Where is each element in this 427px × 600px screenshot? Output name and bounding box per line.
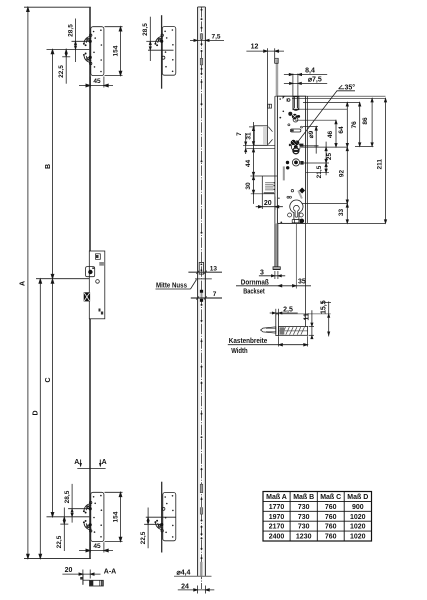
svg-text:A: A xyxy=(74,459,79,466)
dimension 154 (top) xyxy=(105,26,123,28)
dimension 13 line xyxy=(188,271,222,273)
svg-text:1770: 1770 xyxy=(269,504,285,511)
cylinder square hole in strip xyxy=(199,263,203,275)
svg-text:⌀7,5: ⌀7,5 xyxy=(308,77,322,84)
svg-text:76: 76 xyxy=(351,121,358,129)
svg-text:30: 30 xyxy=(245,182,252,190)
rod foot xyxy=(273,267,280,270)
screw holes top plate xyxy=(93,29,102,72)
strip inner edge shading xyxy=(198,7,200,576)
svg-text:2,5: 2,5 xyxy=(283,307,293,314)
svg-text:22,5: 22,5 xyxy=(58,65,65,78)
svg-text:1020: 1020 xyxy=(350,524,366,531)
svg-text:86: 86 xyxy=(362,117,369,125)
svg-text:21,5: 21,5 xyxy=(316,165,323,178)
right side tick rows xyxy=(275,95,386,97)
lower escutcheon (protruding left) xyxy=(261,176,263,209)
svg-text:Maß A: Maß A xyxy=(266,494,287,501)
svg-text:730: 730 xyxy=(298,504,310,511)
dimension 7,5 (strip hole) xyxy=(190,39,224,41)
faceplate segment (detail top) xyxy=(161,15,163,89)
cylinder escutcheon cover (protruding left) xyxy=(254,126,267,146)
Kastenbreite dimension xyxy=(278,336,280,346)
dimension C xyxy=(52,279,54,517)
svg-text:1970: 1970 xyxy=(269,514,285,521)
main lock case body (side view) xyxy=(89,251,105,319)
svg-text:760: 760 xyxy=(325,504,337,511)
dimension 25 / 21,5 shared line xyxy=(325,142,327,176)
internal top rect xyxy=(96,254,101,259)
dimension 22,5 (detail bottom) xyxy=(147,508,149,549)
keep plate (detail bottom) xyxy=(163,493,176,541)
svg-text:45: 45 xyxy=(93,543,101,550)
svg-text:7,5: 7,5 xyxy=(212,34,221,41)
top hook slot xyxy=(293,97,299,110)
hook slots in strip xyxy=(200,34,203,514)
latch bolt tip xyxy=(261,327,276,333)
svg-text:B: B xyxy=(45,164,52,169)
svg-text:⌀9: ⌀9 xyxy=(308,130,315,138)
svg-text:31: 31 xyxy=(245,132,252,140)
svg-text:Maß C: Maß C xyxy=(320,494,341,501)
strip rivet holes xyxy=(201,9,203,559)
svg-text:28,5: 28,5 xyxy=(142,23,149,36)
svg-text:35°: 35° xyxy=(345,83,356,91)
bottom keep plate xyxy=(91,492,104,541)
svg-text:44: 44 xyxy=(245,160,252,168)
dimension 11 xyxy=(309,326,314,328)
dimension 76 xyxy=(359,102,361,146)
top faceplate extension xyxy=(267,48,269,126)
screw holes bottom plate xyxy=(93,495,102,538)
BOTTOM LEFT: dimension 20 and section A-A detail xyxy=(62,570,103,587)
svg-text:1020: 1020 xyxy=(350,534,366,541)
roller pin circle (detail bottom) xyxy=(162,507,165,510)
table row lines xyxy=(263,500,372,502)
svg-text:7: 7 xyxy=(236,132,243,136)
top keep plate xyxy=(91,27,104,76)
svg-text:760: 760 xyxy=(325,524,337,531)
svg-text:7: 7 xyxy=(213,291,217,298)
svg-text:C: C xyxy=(45,377,52,382)
keep plate (detail top) xyxy=(162,27,176,76)
svg-text:900: 900 xyxy=(352,504,364,511)
svg-text:22,5: 22,5 xyxy=(56,535,63,548)
roller pin circle (detail top) xyxy=(162,56,165,59)
dimension diameter 4,4 xyxy=(174,575,212,577)
left side ticks xyxy=(243,144,275,146)
hook bolt 1 (bottom plate) xyxy=(83,501,92,513)
lower faceplate extension xyxy=(275,223,278,267)
wire: upper hook-pair centerline xyxy=(47,49,91,51)
cylinder escutcheon (protruding) xyxy=(86,267,95,277)
MIDDLE LOCK CASE (left view) xyxy=(84,251,105,319)
hook bolt 1 (top plate) xyxy=(83,34,92,46)
hook bolt (detail top) xyxy=(154,34,163,46)
svg-text:730: 730 xyxy=(298,514,310,521)
small latch keeper on faceplate xyxy=(268,104,272,108)
dimension 12 xyxy=(246,50,284,52)
dimension 24 xyxy=(197,586,199,594)
svg-text:Width: Width xyxy=(231,348,248,355)
svg-text:Dornmaß: Dornmaß xyxy=(241,279,270,286)
svg-text:33: 33 xyxy=(338,209,345,217)
bottom screw xyxy=(300,219,305,224)
dimension diameter 7,5 xyxy=(284,82,327,84)
strip centerline (dash-dot) xyxy=(201,7,203,589)
svg-text:⌀4,4: ⌀4,4 xyxy=(177,570,191,577)
svg-text:A: A xyxy=(102,459,107,466)
faceplate segment (detail bottom) xyxy=(161,482,163,553)
Mitte Nuss reference xyxy=(195,278,212,280)
euro cylinder profile xyxy=(290,200,303,220)
small holes upper case xyxy=(283,111,285,113)
faceplate strip (side view, full height) xyxy=(89,7,91,558)
table column lines xyxy=(289,492,291,542)
wire: mid reference line (Mitte Nuss level) xyxy=(36,278,90,280)
dimension 22,5 (top) xyxy=(65,49,67,84)
small parts bottom of case xyxy=(99,309,101,312)
dimension 31 / 44 / 30 shared line xyxy=(253,122,255,204)
svg-text:28,5: 28,5 xyxy=(68,24,75,37)
dimension diameter 9 xyxy=(315,127,317,154)
strip outline xyxy=(197,7,199,576)
dimension 86 xyxy=(371,98,373,146)
bottom gray rod of strip xyxy=(200,562,202,577)
BELOW CASE: faceplate extension and backset dimension xyxy=(236,223,311,326)
svg-text:154: 154 xyxy=(113,45,120,56)
dimension 7 line xyxy=(191,297,222,299)
hook bolt (detail bottom) xyxy=(154,520,163,532)
dimension 20 (lower escutcheon) xyxy=(274,197,276,211)
svg-text:8,4: 8,4 xyxy=(305,68,315,75)
dimension B xyxy=(52,50,54,279)
dimension 3 (faceplate thickness) xyxy=(274,271,276,279)
wire: bottom reference line xyxy=(24,558,91,560)
svg-text:Backset: Backset xyxy=(243,289,265,296)
svg-text:46: 46 xyxy=(327,131,334,139)
dimension 154 (bottom) xyxy=(105,491,123,493)
hook bolt 2 (bottom plate) xyxy=(83,520,92,532)
svg-text:64: 64 xyxy=(338,126,345,134)
svg-text:25: 25 xyxy=(326,153,333,161)
dimension 28,5 (top) xyxy=(75,19,77,63)
small circle below cylinder xyxy=(96,280,100,284)
hook bolt 2 (top plate) xyxy=(83,53,92,65)
svg-text:3: 3 xyxy=(260,269,264,276)
svg-text:13: 13 xyxy=(210,266,218,273)
cylinder foot collar xyxy=(292,220,301,223)
centerline (detail bottom) xyxy=(146,516,176,518)
svg-text:Maß D: Maß D xyxy=(347,494,368,501)
table outer frame xyxy=(263,492,372,542)
dimension A xyxy=(27,7,29,558)
mid small holes xyxy=(291,190,293,192)
internal gray block xyxy=(99,262,104,266)
wire: top reference line xyxy=(24,6,91,8)
dimension 7 (left) xyxy=(245,133,247,154)
latch head cluster xyxy=(291,140,296,145)
dimension 20 xyxy=(82,570,84,585)
svg-text:2170: 2170 xyxy=(269,524,285,531)
svg-text:Mitte Nuss: Mitte Nuss xyxy=(156,282,187,289)
svg-text:20: 20 xyxy=(65,567,73,574)
MAIN LOCK CASE DRAWING (right) xyxy=(243,48,387,223)
svg-text:20: 20 xyxy=(264,200,272,207)
svg-text:154: 154 xyxy=(113,511,120,522)
svg-text:D: D xyxy=(32,410,39,415)
dimension 28,5 (detail top) xyxy=(149,17,151,61)
slotted link bar xyxy=(290,129,301,132)
svg-text:45: 45 xyxy=(93,78,101,85)
svg-text:760: 760 xyxy=(325,514,337,521)
roller follower xyxy=(292,159,299,166)
dimension 46 xyxy=(335,120,337,147)
svg-text:35: 35 xyxy=(298,279,306,286)
svg-text:730: 730 xyxy=(298,524,310,531)
svg-text:211: 211 xyxy=(376,159,383,170)
svg-text:28,5: 28,5 xyxy=(64,490,71,503)
DETAIL: TOP PLATE (second view) xyxy=(146,15,176,89)
dimension 22,5 (bottom) xyxy=(63,508,65,552)
follower hole in strip xyxy=(200,290,203,293)
section marker A-A (left view) xyxy=(80,460,82,467)
lock case outline xyxy=(274,96,276,223)
section A-A small profile xyxy=(82,574,84,585)
BOTTOM PLATE ASSEMBLY (left view) xyxy=(60,460,122,553)
svg-text:1230: 1230 xyxy=(296,534,312,541)
dimension 8,4 xyxy=(292,74,294,97)
centerline (detail top) xyxy=(148,49,174,51)
case body in section xyxy=(279,327,308,336)
svg-text:12: 12 xyxy=(251,44,259,51)
spring blob xyxy=(288,112,292,116)
svg-text:Maß B: Maß B xyxy=(293,494,314,501)
FLAT FACEPLATE (front view, long strip) xyxy=(156,7,225,594)
svg-text:A-A: A-A xyxy=(104,569,116,576)
dimension 45 (top) xyxy=(89,77,91,88)
svg-text:A: A xyxy=(20,281,27,286)
case rear extension xyxy=(305,224,307,327)
svg-text:2400: 2400 xyxy=(269,534,285,541)
dimension 64 / 92 / 33 shared line xyxy=(346,102,348,223)
SECTION A-A (cross section of case) xyxy=(228,301,331,346)
follower nut (dark square) xyxy=(84,292,90,301)
TOP PLATE ASSEMBLY (left view) xyxy=(62,19,122,88)
svg-text:1020: 1020 xyxy=(350,514,366,521)
case interior: top screws xyxy=(279,98,281,100)
svg-text:760: 760 xyxy=(325,534,337,541)
dimension D xyxy=(39,279,41,559)
svg-text:15,5: 15,5 xyxy=(320,300,327,314)
dimension 211 xyxy=(385,98,387,223)
dimension 45 (bottom) xyxy=(89,542,91,552)
latch axis extension xyxy=(295,224,297,289)
dimension 15,5 xyxy=(321,302,331,304)
dimension 2,5 xyxy=(275,309,277,316)
35 degree leader line xyxy=(297,91,337,144)
hook pivot pin diameter 9 xyxy=(292,114,298,120)
svg-text:11: 11 xyxy=(303,313,310,321)
svg-text:24: 24 xyxy=(181,583,189,590)
svg-text:Kastenbreite: Kastenbreite xyxy=(229,338,268,345)
DIMENSION TABLE xyxy=(263,492,372,542)
latch washer xyxy=(293,148,299,154)
svg-text:92: 92 xyxy=(339,170,346,178)
Dornmass dimension line xyxy=(236,285,311,287)
gray guide rod xyxy=(283,166,285,180)
svg-text:22,5: 22,5 xyxy=(140,531,147,544)
faceplate in section xyxy=(276,314,279,336)
DETAIL: BOTTOM PLATE (second view) xyxy=(144,482,176,553)
cylinder side lugs xyxy=(288,213,292,217)
wire: lower hook-pair centerline xyxy=(47,516,91,518)
dimension 28,5 (bottom) xyxy=(71,484,73,523)
